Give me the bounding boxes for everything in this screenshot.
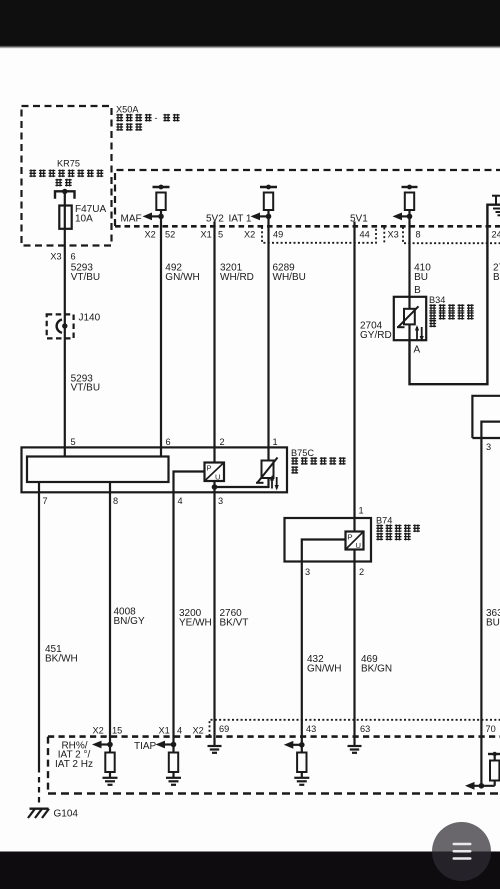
svg-text:6: 6 (166, 437, 171, 447)
label RH%/ IAT 2 °/ IAT 2 Hz (55, 740, 93, 770)
svg-text:X2: X2 (93, 726, 104, 736)
pin X2 69 (193, 724, 230, 736)
label wire 2760 BK/VT (220, 608, 249, 629)
svg-text:49: 49 (273, 229, 283, 239)
MAP sensor B74 box (285, 518, 372, 562)
svg-text:-: - (155, 113, 158, 123)
ground below pin 15 resistor (103, 778, 118, 785)
resistor (IAT1 pull-up) with top bar (260, 185, 277, 210)
node IAT1 junction with arrow (251, 213, 272, 221)
label wire 469 BK/GN (361, 654, 392, 675)
svg-text:BK/VT: BK/VT (220, 618, 249, 629)
svg-text:GN/WH: GN/WH (307, 664, 341, 675)
svg-text:X1: X1 (201, 229, 212, 239)
svg-text:2: 2 (220, 437, 225, 447)
label wire 492 GN/WH (165, 263, 199, 283)
MAF/IAT sensor B75C outer box (22, 447, 288, 492)
pin 1 label (B75C) (273, 437, 278, 447)
svg-text:70: 70 (486, 724, 496, 734)
wire MAF column x161 down to B75C pin 6 (160, 210, 162, 457)
sensor connector box (bottom dashed enclosure) (48, 737, 500, 794)
svg-text:Bl: Bl (493, 272, 500, 283)
svg-text:X2: X2 (145, 229, 156, 239)
svg-text:63: 63 (360, 724, 370, 734)
wire B74 P/U to pin 3 (302, 540, 346, 562)
label B75C 进气传感器故障 (291, 448, 346, 474)
svg-text:X50A: X50A (116, 105, 139, 115)
label wire 273x BK (clipped at right edge) (493, 263, 500, 283)
wire 5V1 column x354.5 down to B74 P/U (353, 222, 355, 532)
pin 3 label (right sensor) (486, 442, 491, 452)
resistor below pin 4 (169, 745, 178, 778)
svg-text:15: 15 (112, 726, 122, 736)
node MAF signal junction with arrow (143, 213, 164, 221)
node pin70 junction with arrow (465, 782, 495, 790)
node coolant signal junction with arrow (393, 213, 413, 221)
wire 410 column x409.5 down to B34 (408, 210, 410, 297)
wire B74 P/U bottom to pin 2 (353, 550, 355, 562)
ground below pin 43 resistor (294, 778, 309, 785)
svg-text:GY/RD: GY/RD (360, 330, 392, 341)
pin 44 (360, 229, 370, 239)
svg-text:IAT 2 Hz: IAT 2 Hz (55, 759, 93, 770)
wire B75C pin 4 down (3200 YE/WH) (172, 492, 174, 744)
label wire 5293 VT/BU (lower) (71, 373, 100, 393)
resistor (MAF pull-up) with top bar (153, 185, 170, 210)
fuse box X50A (dashed enclosure) (22, 106, 112, 246)
svg-text:BK/GN: BK/GN (361, 664, 392, 675)
svg-text:10A: 10A (75, 214, 93, 225)
label G104 (54, 809, 79, 820)
connector J140 (47, 314, 74, 338)
svg-text:7: 7 (43, 496, 48, 506)
pin A of B34 (414, 345, 421, 356)
label relay KR75 发动机控制开关继电器 (29, 158, 103, 186)
pin 70 (486, 724, 496, 734)
label wire 363x BU (clipped) (486, 608, 500, 629)
pressure cell P/U of B75C (205, 463, 225, 482)
wire pin 4 to P/U cell inside B75C (174, 472, 205, 493)
pin 2 label (B75C) (220, 437, 225, 447)
label X50A 保险丝盒 - 发动机罩下 (116, 105, 180, 131)
pin 2 label (B74 bottom) (359, 567, 364, 577)
ground G104 (chassis) (28, 809, 49, 818)
ground below pin 4 resistor (166, 778, 181, 785)
svg-text:44: 44 (360, 229, 370, 239)
pin 1 label (B74 top) (359, 506, 364, 516)
label wire 5293 VT/BU (upper) (71, 263, 100, 283)
svg-text:WH/BU: WH/BU (273, 272, 306, 283)
ECM connector edge (thick dashed) (115, 225, 500, 228)
svg-text:IAT 1: IAT 1 (229, 213, 252, 224)
svg-text:KR75: KR75 (57, 158, 80, 168)
svg-text:B: B (414, 285, 421, 296)
svg-text:U: U (215, 473, 220, 482)
label J140 (79, 312, 101, 323)
wire B75C pin 7 down (451 BK/WH) (38, 492, 40, 806)
svg-text:69: 69 (219, 724, 229, 734)
svg-text:5: 5 (218, 229, 223, 239)
svg-text:2: 2 (359, 567, 364, 577)
svg-text:BK/WH: BK/WH (45, 654, 78, 665)
svg-text:1: 1 (359, 506, 364, 516)
pin X1 4 (159, 726, 183, 736)
svg-text:X2: X2 (193, 726, 204, 736)
pin X2 15 (93, 726, 123, 736)
svg-text:BU(: BU( (486, 618, 500, 629)
pin 7 label (B75C bottom) (43, 496, 48, 506)
resistor below pin 15 (105, 745, 114, 778)
label B34 发动机冷却液温度传感器 (429, 295, 474, 327)
svg-text:YE/WH: YE/WH (179, 618, 212, 629)
svg-text:52: 52 (165, 229, 175, 239)
coolant temp sensor B34 (394, 297, 426, 342)
svg-text:P: P (348, 533, 353, 542)
label wire 4008 BN/GY (114, 607, 145, 628)
label wire 6289 WH/BU (273, 263, 306, 283)
navigation bar (bottom black) (0, 852, 500, 889)
wire from relay through fuse down to B75C pin 5 (64, 192, 66, 457)
label TIAP (134, 741, 157, 752)
pin 6 label (B75C) (166, 437, 171, 447)
label MAF (121, 213, 142, 224)
pin 3 label (B74 bottom) (305, 567, 310, 577)
pin 63 (360, 724, 370, 734)
label wire 432 GN/WH (307, 654, 341, 675)
svg-text:B75C: B75C (291, 448, 314, 458)
pin X3 6 (fuse box output) (50, 251, 75, 261)
label wire 410 BU and pin B (414, 263, 431, 296)
B75C inner element box (27, 457, 169, 483)
ground below pin 63 (348, 738, 362, 753)
resistor below pin 43 (297, 745, 306, 778)
pin X3 8 (388, 229, 421, 239)
label wire 2704 GY/RD (360, 321, 392, 341)
svg-text:B34: B34 (429, 295, 445, 305)
ECM dashed enclosure (top edge and left edge) (115, 170, 500, 226)
resistor (coolant temp pull-up) with top bar (402, 185, 418, 210)
label B74 歧管绝对压力传感器 (376, 515, 420, 540)
wire stub pin 7 inside B75C (38, 482, 40, 492)
svg-text:3: 3 (305, 567, 310, 577)
pin X2 49 (244, 229, 283, 239)
node pin43 junction with arrow (284, 741, 305, 749)
fuse F47UA 10A (59, 206, 71, 229)
node pin4 junction with arrow (156, 741, 177, 749)
svg-text:3: 3 (486, 442, 491, 452)
pin X1 5 (201, 229, 224, 239)
pressure cell P/U of B74 (346, 532, 364, 551)
svg-text:X3: X3 (388, 229, 399, 239)
svg-text:BN/GY: BN/GY (114, 616, 145, 627)
wire stub pin 8 inside B75C (109, 482, 111, 492)
svg-text:5V1: 5V1 (350, 213, 368, 224)
svg-text:GN/WH: GN/WH (165, 272, 199, 283)
svg-text:BU: BU (414, 272, 428, 283)
pin 24 (492, 229, 500, 239)
wire B75C pin 3 down (2760 BK/VT) (213, 492, 215, 738)
node junction below P/U (B75C pin 3) (212, 481, 218, 492)
status bar (top black) (0, 0, 500, 49)
svg-text:G104: G104 (54, 809, 79, 820)
label wire 3200 YE/WH (179, 608, 212, 629)
svg-text:6: 6 (71, 251, 76, 261)
connector group box pins 8-24 (dotted) (384, 227, 500, 243)
pin 43 (306, 724, 316, 734)
wire junction to thermistor bottom (B75C) (215, 478, 269, 487)
node pin15 junction with arrow (92, 741, 113, 749)
ground below pin 69 (208, 738, 222, 753)
label wire 451 BK/WH (45, 644, 78, 665)
wire B34 pin A loop to top-right ground (410, 205, 500, 385)
pin 4 label (B75C bottom) (178, 496, 183, 506)
label F47UA 10A (75, 204, 106, 225)
svg-text:8: 8 (113, 496, 118, 506)
wire 5V2 column x214.5 down to B75C P/U (213, 222, 215, 463)
pin X2 52 (145, 229, 176, 239)
svg-text:4: 4 (177, 726, 182, 736)
svg-text:B74: B74 (376, 515, 392, 525)
wire B74 pin 2 down (469 BK/GN) (353, 562, 355, 739)
svg-text:WH/RD: WH/RD (220, 272, 254, 283)
floating menu button (432, 822, 491, 881)
svg-text:43: 43 (306, 724, 316, 734)
pin 3 label (B75C bottom) (218, 496, 223, 506)
svg-text:X3: X3 (50, 251, 61, 261)
svg-text:J140: J140 (79, 312, 101, 323)
svg-text:1: 1 (273, 437, 278, 447)
svg-text:VT/BU: VT/BU (71, 272, 100, 283)
svg-text:X1: X1 (159, 726, 170, 736)
svg-text:P: P (207, 464, 212, 473)
wire B75C pin 8 down (4008 BN/GY) (109, 492, 111, 744)
pin 5 label (B75C) (71, 437, 76, 447)
label 5V1 (350, 213, 368, 224)
label IAT 1 (229, 213, 252, 224)
svg-text:24: 24 (492, 229, 500, 239)
svg-text:MAF: MAF (121, 213, 142, 224)
connector group box pins 49-44 (dotted) (262, 227, 376, 243)
right sensor box (clipped at edge) (472, 396, 500, 438)
svg-text:4: 4 (178, 496, 183, 506)
label wire 3201 WH/RD (220, 263, 254, 283)
svg-text:X2: X2 (244, 229, 255, 239)
svg-text:U: U (356, 541, 361, 550)
svg-text:5: 5 (71, 437, 76, 447)
ground marks top-right (clipped) (492, 196, 500, 216)
svg-text:A: A (414, 345, 421, 356)
svg-text:TIAP: TIAP (134, 741, 157, 752)
wire B74 pin 3 down (432 GN/WH) (301, 562, 303, 745)
wire IAT1 column x268.5 down to B75C thermistor (267, 210, 269, 461)
relay contact KR75 terminal (55, 189, 75, 199)
svg-text:VT/BU: VT/BU (71, 383, 100, 394)
svg-text:8: 8 (416, 229, 421, 239)
svg-text:3: 3 (218, 496, 223, 506)
connector group box pins 69-70 (dotted) (210, 720, 500, 736)
thermistor element of B75C (256, 458, 279, 491)
pin 8 label (B75C bottom) (113, 496, 118, 506)
label 5V2 (206, 213, 224, 224)
wire right sensor pin 3 down to pin 70 (480, 438, 482, 786)
resistor column at pin 70 (clipped) (488, 752, 500, 786)
